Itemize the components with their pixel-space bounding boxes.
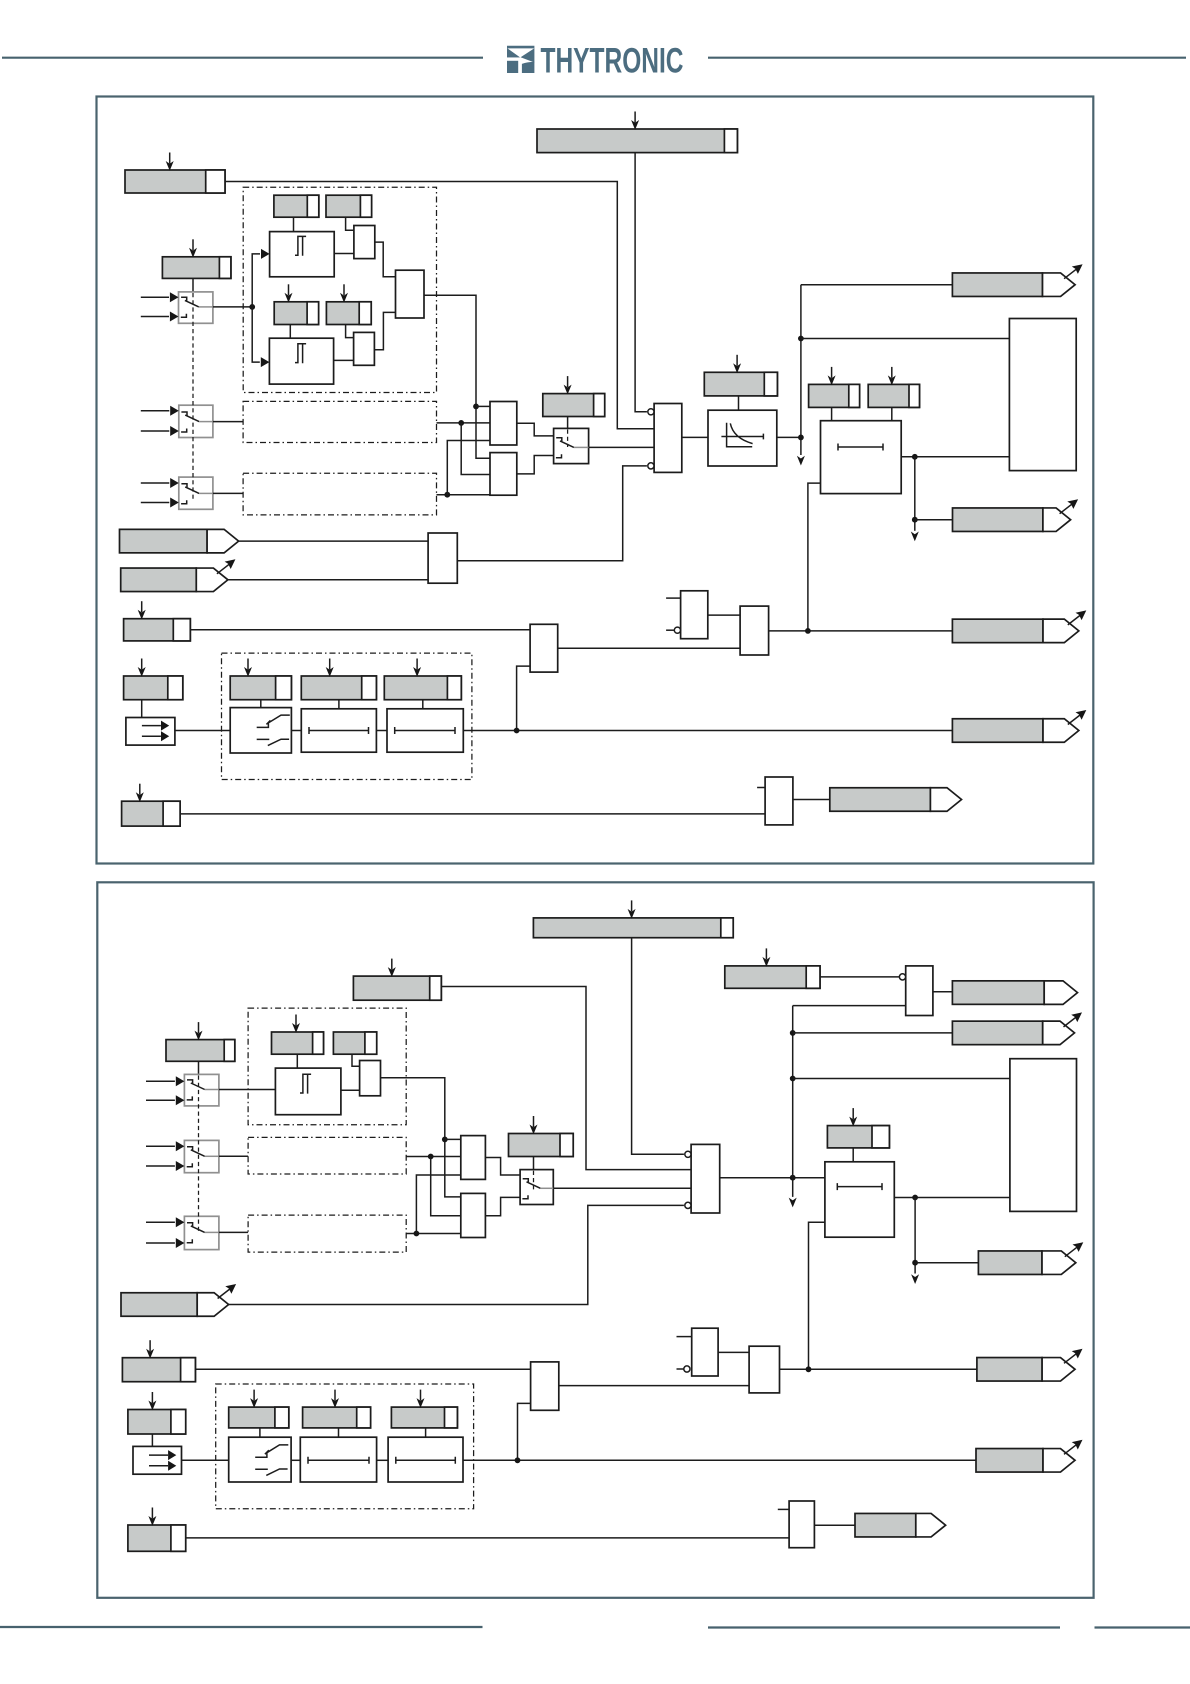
comparator 1 <box>270 232 335 277</box>
junction: curve output node <box>798 435 804 441</box>
dashed group: measuring element <box>243 187 436 392</box>
output flag: trip <box>953 499 1079 531</box>
signal gate A-2 inverted input bubble <box>684 1366 690 1372</box>
stub 2: signal gate A input 1 <box>677 1336 692 1338</box>
header rule left <box>2 57 483 59</box>
wire 2: monitor enable to block B5 <box>186 1537 789 1539</box>
output flag 2: start B <box>952 1012 1082 1044</box>
signal gate B-2 <box>749 1346 779 1393</box>
inverted input bubble top 2 <box>685 1151 691 1157</box>
wire 2: chain delay 1 bar down <box>338 1428 340 1437</box>
mode switch symbol <box>556 438 589 458</box>
wire: selection bar to gate input <box>225 182 654 429</box>
OR gate 2 (trip path) <box>490 453 517 496</box>
wire: monitor enable to block B5 <box>180 813 765 815</box>
wire: blocking OR to gate inverted input <box>457 466 647 561</box>
stub: signal gate A input 1 <box>666 597 681 599</box>
junction: measured value node <box>249 304 255 310</box>
start signal column with down arrow <box>797 285 805 466</box>
junction 2: latch branch <box>790 1076 796 1082</box>
event block <box>126 718 175 746</box>
wire: switch 2 to dashed element 2 <box>213 421 243 423</box>
wire 2: switch 3 to dashed element 3 <box>219 1231 248 1233</box>
wire: gate B output to signal flag <box>769 630 953 632</box>
wire 2: enable bar to gate inverted input <box>632 938 684 1155</box>
blocked-start gate bubble <box>899 974 905 980</box>
dashed group: element 2 (not used) <box>243 401 436 442</box>
delay 1-2 symbol <box>308 1457 369 1464</box>
selector bar 2: mode select <box>509 1116 574 1157</box>
hysteresis symbol comparator 1 <box>295 236 306 255</box>
timer block <box>821 421 902 494</box>
output flag: signal <box>952 610 1086 642</box>
dashed group: element 3 (not used) <box>243 473 436 515</box>
wire: block B4 to gate B <box>558 647 740 649</box>
select line: dashed through switches <box>192 293 194 501</box>
wire: chain branch to block B4 <box>517 666 531 730</box>
wire 2: column to start flag <box>793 1032 953 1034</box>
wire 2: branch to OR gate 2 <box>431 1157 461 1216</box>
junction: chain output node <box>514 728 520 734</box>
dashed group 2: measuring element <box>248 1008 406 1125</box>
wire 2: selector to switch 1 <box>198 1061 200 1074</box>
input arrow: switch 2-2 in A <box>146 1141 184 1151</box>
setting bar 2: chain delay 2 <box>391 1390 457 1428</box>
junction 2: trip node <box>912 1195 918 1201</box>
wire 2: blocked gate to flag A <box>933 991 953 993</box>
event arrows 2 <box>149 1450 176 1471</box>
input arrow: switch 1-2 in B <box>146 1095 184 1105</box>
input arrow: switch 1-2 in A <box>146 1076 184 1086</box>
OR gate 1 (start) <box>490 402 517 446</box>
input arrow: switch 3 in B <box>141 498 179 508</box>
wire: combiner output to OR column <box>424 295 490 458</box>
setting bar 2: definite-time selection <box>353 959 441 1001</box>
junction 2: chain output node <box>515 1457 521 1463</box>
breaker contact block 2 <box>229 1437 291 1482</box>
block B1 <box>354 226 375 259</box>
wire: chain delay 2 bar down <box>422 700 424 709</box>
event arrows <box>142 721 169 742</box>
wire: threshold D to block B2 <box>346 325 354 338</box>
wire: event enable to event block <box>141 700 143 718</box>
block B5-2 (monitor) <box>789 1501 814 1548</box>
wire 2: time bar to timer <box>852 1148 854 1162</box>
junction: element 2 branch <box>458 420 464 426</box>
input flag: blocking input 2 <box>121 559 236 591</box>
wire 2: timer output to latch block <box>894 1197 1010 1199</box>
switch symbol 2-2 <box>187 1147 219 1167</box>
comparator 3 <box>275 1068 341 1115</box>
stub 2: signal gate A input 2 <box>677 1368 684 1370</box>
breaker contact symbol 2 <box>255 1445 288 1476</box>
wire: start node to start flag <box>801 284 953 286</box>
wire: OR gate 2 to mode switch <box>517 456 554 474</box>
wire: node to comparator 1 with arrow <box>252 249 269 307</box>
wire: AND gate output <box>682 436 708 438</box>
event block 2 <box>133 1446 182 1474</box>
wire: blocking input 2 to OR <box>228 579 428 581</box>
timer symbol 2 <box>837 1183 882 1190</box>
wire: comparator 1 output <box>334 253 354 255</box>
wire: timer output to latch block <box>901 456 1009 458</box>
wire 2: block B5 to monitor flag <box>814 1524 855 1526</box>
input switch 3-2 <box>184 1216 219 1249</box>
OR block: blocking <box>428 533 457 583</box>
junction 2: operate node <box>790 1175 796 1181</box>
input arrow: switch 1 in B <box>141 312 179 322</box>
wire: block B2 to OR combiner <box>374 312 395 349</box>
setting bar 2: signal enable <box>122 1340 195 1382</box>
selector bar: mode select <box>543 376 605 416</box>
input arrow: switch 2-2 in B <box>146 1161 184 1171</box>
input arrow: switch 2 in A <box>141 406 179 416</box>
breaker contact block <box>230 708 291 753</box>
wire: mode selector to switch <box>567 417 569 429</box>
input arrow: switch 1 in A <box>141 292 179 302</box>
wire 2: chain delay 2 bar down <box>425 1428 427 1437</box>
wire 2: chain relay bar down <box>259 1428 261 1437</box>
inverted input bubble top <box>648 409 654 415</box>
timer symbol <box>838 444 883 451</box>
junction 2: element 3 branch <box>414 1231 420 1237</box>
setting bar: operate time <box>809 367 860 408</box>
setting bar: reset time <box>868 367 919 408</box>
block B5 (monitor) <box>765 777 793 825</box>
setting bar: function enable (top) <box>537 112 737 153</box>
wire: delay 1 to delay 2 <box>376 730 387 732</box>
junction 2: element 1 branch <box>442 1137 448 1143</box>
wire: block B5 to monitor flag <box>793 799 830 801</box>
setting bar 2: block function <box>725 948 820 988</box>
input flag 2: blocking input <box>121 1284 236 1316</box>
wire 2: trip node down with arrow <box>911 1198 919 1285</box>
delay 2-2 symbol <box>396 1457 456 1464</box>
delay block 1-2 <box>300 1437 376 1482</box>
wire 2: chain branch to block B4 <box>518 1403 531 1460</box>
wire: threshold A to comparator 1 <box>293 217 295 231</box>
wire: element 2 output <box>437 422 491 424</box>
dashed group 2: element 3 (not used) <box>248 1215 406 1252</box>
setting bar: chain delay 2 <box>384 659 461 700</box>
wire 2: blocking input to gate inverted input <box>229 1205 684 1304</box>
dashed group 2: element 2 (not used) <box>248 1137 406 1174</box>
junction 2: timer feedback node <box>806 1366 812 1372</box>
input switch 1-2 <box>184 1074 219 1106</box>
hysteresis symbol comparator 3 <box>300 1074 311 1093</box>
wire 2: signal gate A to gate B <box>718 1351 749 1353</box>
input arrow: switch 2 in B <box>141 426 179 436</box>
junction: trip flag branch <box>912 517 918 523</box>
stub: signal gate A input 2 <box>666 629 674 631</box>
input flag: blocking input 1 <box>120 529 239 553</box>
wire: branch to OR gate 1 <box>476 405 490 407</box>
footer rule middle <box>708 1626 1060 1628</box>
AND gate (enable logic) <box>654 404 682 473</box>
junction 2: signal branch A <box>790 1030 796 1036</box>
wire: reset time bar to timer <box>891 407 893 420</box>
wire 2: event block to chain <box>182 1459 229 1461</box>
setting bar 2: monitor enable <box>128 1508 186 1552</box>
wire 2: OR gate 1 to mode switch <box>485 1158 520 1176</box>
input switch 1 <box>179 292 213 323</box>
setting box: threshold C <box>274 284 318 324</box>
comparator 2 <box>269 338 333 384</box>
wire: chain relay bar down <box>260 700 262 708</box>
setting bar 2: operate time <box>827 1108 889 1148</box>
setting bar 2: function enable (top) <box>533 900 733 937</box>
wire 2: comparator 3 output <box>341 1089 360 1091</box>
wire 2: signal enable to block B4 <box>195 1368 530 1370</box>
wire 2: branch to OR gate 1 lower <box>416 1175 460 1234</box>
footer rule right <box>1095 1626 1190 1628</box>
setting bar: signal enable <box>124 601 191 641</box>
wire: selector to switch 1 <box>192 278 194 291</box>
wire: node to comparator 2 with arrow <box>252 307 269 367</box>
delay block 1 <box>301 709 376 752</box>
wire 2: switch 1 to comparator 3 <box>219 1089 276 1091</box>
select line: dashed into mode switch <box>567 430 569 448</box>
dash-dot group: output chain <box>222 653 472 779</box>
mode switch 2 symbol <box>522 1179 553 1199</box>
wire 2: threshold F to block B1 <box>352 1054 360 1066</box>
wire: enable bar to gate inverted input <box>635 153 647 412</box>
junction: trip node <box>912 454 918 460</box>
delay block 2 <box>387 709 463 752</box>
wire: threshold B to block B1 <box>346 217 354 230</box>
junction 2: element 2 branch <box>428 1154 434 1160</box>
wire 2: NAND output to timer <box>720 1177 825 1179</box>
wire: switch 1 output <box>213 306 252 308</box>
block B4-2 (signal OR) <box>531 1362 559 1410</box>
wire: chain delay 1 bar down <box>338 700 340 709</box>
block B2 <box>354 332 375 365</box>
switch symbol 3-2 <box>187 1223 219 1243</box>
OR gate 2-2 (trip path) <box>461 1193 486 1237</box>
inverted input bubble bottom <box>648 463 654 469</box>
function block frame 1 <box>97 97 1094 864</box>
wire: event block to chain <box>175 730 230 732</box>
delay 2 symbol <box>395 727 455 734</box>
wire: signal gate A to gate B <box>708 614 740 616</box>
signal gate A-2 <box>692 1328 718 1376</box>
input switch 2-2 <box>184 1140 219 1172</box>
signal gate A inverted input bubble <box>674 627 680 633</box>
output flag 2: chain output <box>976 1440 1083 1472</box>
NAND gate (enable logic 2) <box>691 1144 720 1213</box>
wire: operate time bar to timer <box>831 407 833 420</box>
wire 2: mode selector to switch <box>533 1157 535 1170</box>
dash-dot group 2: output chain <box>216 1384 474 1509</box>
setting bar 2: chain delay 1 <box>303 1390 371 1428</box>
wire: blocking input 1 to OR <box>239 540 429 542</box>
wire: curve block output <box>777 436 801 438</box>
signal gate A <box>681 591 708 639</box>
wire: branch to OR gate 2 <box>461 423 490 475</box>
output flag 2: trip <box>978 1242 1083 1274</box>
operate signal column with down arrow <box>789 1006 797 1208</box>
wire: curve bar to curve block <box>738 396 740 410</box>
wire 2: OR gate 2 to mode switch <box>485 1197 520 1215</box>
OR combiner <box>396 270 425 318</box>
latch/counter block 2 <box>1010 1059 1077 1212</box>
wire: block B1 to OR combiner <box>375 242 396 277</box>
selector bar: input select <box>162 239 231 278</box>
wire 2: mode switch to NAND gate <box>553 1187 691 1189</box>
select line 2: dashed through switches <box>198 1076 200 1234</box>
mode switch <box>554 428 589 463</box>
junction 2: trip flag branch <box>912 1260 918 1266</box>
setting bar: definite-time selection <box>125 153 225 194</box>
input arrow: switch 3-2 in B <box>146 1238 184 1248</box>
hysteresis symbol comparator 2 <box>295 344 306 363</box>
wire 2: element 2 output <box>406 1156 461 1158</box>
switch symbol 2 <box>181 412 213 432</box>
junction: timer feedback node <box>805 628 811 634</box>
inverted input bubble bottom 2 <box>685 1202 691 1208</box>
wire 2: element 3 output <box>406 1233 461 1235</box>
wire 2: gate B output to signal flag <box>780 1368 977 1370</box>
input switch 3 <box>179 477 213 509</box>
wire 2: trip node to trip flag <box>915 1262 978 1264</box>
setting bar 2: event enable <box>128 1392 186 1434</box>
setting bar: monitor enable <box>122 784 181 826</box>
stub 2: block B5 upper input <box>778 1508 789 1510</box>
wire 2: threshold E to comparator <box>296 1054 298 1068</box>
wire 2: branch to OR gate 1 <box>445 1138 461 1140</box>
output flag: start <box>952 264 1082 296</box>
stub: block B5 upper input <box>757 787 765 789</box>
wire: threshold C to comparator 2 <box>289 325 291 339</box>
wire 2: block B1-2 to OR column <box>381 1078 461 1197</box>
svg-text:THYTRONIC: THYTRONIC <box>541 41 684 81</box>
mode switch 2 <box>520 1170 553 1205</box>
logo mark <box>507 46 534 73</box>
setting box: threshold D <box>326 284 371 324</box>
output flag: monitor <box>830 788 962 812</box>
wire: OR gate 1 to mode switch <box>517 423 554 436</box>
wire 2: block bar to gate bubble <box>820 976 899 978</box>
setting bar 2: chain relay <box>229 1390 289 1428</box>
OR gate 1-2 (start) <box>461 1136 486 1180</box>
latch/counter block <box>1009 319 1076 471</box>
select line 2: dashed into mode switch <box>533 1171 535 1190</box>
junction: element 3 branch <box>444 492 450 498</box>
input switch 2 <box>179 405 213 437</box>
switch symbol 3 <box>181 484 213 504</box>
wire 2: selection bar to gate input <box>441 987 691 1170</box>
breaker contact symbol <box>257 715 290 746</box>
delay block 2-2 <box>388 1437 463 1482</box>
wire: start node to latch block <box>801 338 1010 340</box>
output flag 2: signal <box>977 1349 1083 1381</box>
junction: combiner output branch <box>473 404 479 410</box>
selector bar 2: input select <box>166 1022 235 1061</box>
wire: trip node to trip flag <box>915 519 953 521</box>
wire 2: breaker to delay 1 <box>291 1459 300 1461</box>
footer rule left <box>0 1626 483 1628</box>
setting box: threshold A <box>274 195 319 217</box>
header rule right <box>708 57 1186 59</box>
output flag 2: monitor <box>855 1513 946 1537</box>
output flag: chain output <box>952 710 1086 742</box>
setting box: threshold B <box>326 195 372 217</box>
junction: start to latch block <box>798 336 804 342</box>
timer block 2 <box>825 1162 894 1237</box>
wire: trip node down with arrow <box>911 457 919 542</box>
wire 2: event enable to event block <box>151 1434 153 1446</box>
wire: comparator 2 output <box>334 359 354 361</box>
setting bar: event enable <box>124 659 183 700</box>
setting bar: characteristic curve <box>704 355 777 396</box>
switch symbol 1 <box>181 297 213 317</box>
block B4 (signal OR) <box>530 624 558 672</box>
setting bar: chain relay <box>230 659 291 700</box>
setting box 2: threshold E <box>272 1015 324 1055</box>
wire: branch to OR gate 1 lower <box>447 441 490 495</box>
wire 2: chain output to output flag <box>463 1459 976 1461</box>
setting box 2: threshold F <box>333 1032 376 1054</box>
signal gate B <box>740 606 769 655</box>
wire 2: column top to blocked gate <box>793 1005 906 1007</box>
setting bar: chain delay 1 <box>301 659 376 700</box>
wire: element 3 output <box>437 494 491 496</box>
wire: signal enable bar to block B4 <box>190 629 530 631</box>
block B1-2 <box>360 1061 381 1096</box>
blocked-start gate <box>906 966 933 1016</box>
wire: timer reset feedback <box>808 483 821 631</box>
wire 2: timer reset feedback <box>809 1222 825 1369</box>
wire 2: column to latch block <box>793 1078 1010 1080</box>
wire: chain output to output flag <box>463 730 952 732</box>
wire 2: block B4 to gate B <box>559 1385 749 1387</box>
wire: switch 3 to dashed element 3 <box>213 492 243 494</box>
input arrow: switch 3-2 in A <box>146 1217 184 1227</box>
switch symbol 1-2 <box>187 1080 219 1100</box>
input arrow: switch 3 in A <box>141 478 179 488</box>
inverse-time curve block <box>708 410 777 466</box>
inverse time characteristic icon <box>721 423 763 447</box>
output flag 2: start A <box>952 981 1077 1005</box>
function block frame 2 <box>97 882 1093 1598</box>
wire: breaker to delay 1 <box>291 730 301 732</box>
wire 2: switch 2 to dashed element 2 <box>219 1155 248 1157</box>
wire: mode switch to AND gate <box>589 446 655 448</box>
delay 1 symbol <box>309 727 369 734</box>
wire 2: delay 1 to delay 2 <box>377 1459 389 1461</box>
